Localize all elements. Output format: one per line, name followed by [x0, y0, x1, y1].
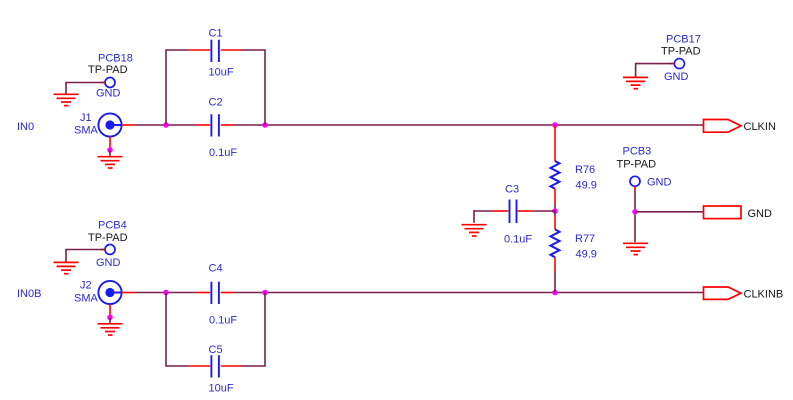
- wire IN0B main row: [135, 292, 704, 294]
- svg-text:PCB17: PCB17: [666, 33, 701, 45]
- ground below PCB4: [54, 262, 79, 273]
- wire C5 bypass loop: [166, 293, 265, 367]
- ground below PCB3: [623, 243, 648, 254]
- svg-text:GND: GND: [664, 71, 689, 83]
- wire PCB3 vertical: [634, 190, 636, 242]
- capacitor C3: [493, 184, 533, 246]
- svg-text:CLKINB: CLKINB: [744, 289, 784, 301]
- testpoint PCB17 TP-PAD: [661, 33, 701, 83]
- port CLKIN: [704, 120, 776, 134]
- svg-text:GND: GND: [647, 177, 672, 189]
- junction (265,292.5): [262, 290, 268, 296]
- svg-text:GND: GND: [748, 208, 773, 220]
- ground below J2: [98, 324, 123, 335]
- testpoint PCB3 TP-PAD: [617, 146, 672, 189]
- junction (555,292.5): [552, 290, 558, 296]
- svg-text:IN0B: IN0B: [17, 288, 41, 300]
- pin J2 right: [122, 292, 136, 294]
- pin PCB4: [101, 249, 106, 251]
- ground at C3: [462, 225, 487, 236]
- resistor R77: [551, 216, 597, 272]
- junction (555,211): [552, 208, 558, 214]
- svg-text:10uF: 10uF: [209, 383, 234, 395]
- svg-text:C3: C3: [505, 184, 519, 196]
- wire IN0 main row: [135, 124, 704, 126]
- svg-text:CLKIN: CLKIN: [744, 121, 776, 133]
- svg-text:IN0: IN0: [17, 121, 34, 133]
- svg-text:PCB18: PCB18: [98, 53, 133, 65]
- wire PCB4 to ground: [66, 250, 105, 262]
- junction (166,125): [163, 122, 169, 128]
- pin J1 right: [122, 124, 136, 126]
- wire J1 ground stub: [109, 150, 111, 156]
- testpoint PCB18 TP-PAD: [88, 53, 133, 100]
- svg-text:C5: C5: [209, 344, 223, 356]
- svg-text:C1: C1: [209, 28, 223, 40]
- svg-text:TP-PAD: TP-PAD: [617, 158, 657, 170]
- wire node to R77: [554, 211, 556, 216]
- capacitor C4: [196, 263, 237, 327]
- svg-text:C2: C2: [209, 97, 223, 109]
- testpoint PCB4 TP-PAD: [88, 220, 128, 269]
- svg-text:J1: J1: [80, 112, 92, 124]
- svg-text:GND: GND: [96, 88, 121, 100]
- connector J2 SMA: [74, 280, 122, 305]
- svg-text:0.1uF: 0.1uF: [209, 315, 237, 327]
- junction (265,125): [262, 122, 268, 128]
- svg-text:TP-PAD: TP-PAD: [661, 45, 701, 57]
- junction J2 ground: [107, 315, 113, 321]
- connector J1 SMA: [74, 112, 122, 137]
- pin PCB3: [634, 186, 636, 190]
- svg-text:SMA: SMA: [74, 293, 99, 305]
- wire PCB18 to ground: [66, 83, 105, 94]
- wire C3 to node: [474, 210, 555, 223]
- svg-text:R77: R77: [575, 233, 595, 245]
- wire PCB17 to ground: [636, 64, 675, 77]
- wire C1 bypass loop: [166, 50, 265, 125]
- junction J1 ground: [107, 147, 113, 153]
- capacitor C2: [196, 97, 237, 160]
- svg-text:SMA: SMA: [74, 125, 99, 137]
- svg-text:J2: J2: [80, 280, 92, 292]
- wire R76 to node: [554, 204, 556, 211]
- port CLKINB: [704, 287, 784, 301]
- ground below PCB17: [623, 77, 648, 88]
- svg-text:TP-PAD: TP-PAD: [88, 64, 128, 76]
- pin PCB18: [101, 82, 106, 84]
- junction (166,292.5): [163, 290, 169, 296]
- pin PCB17: [670, 63, 674, 65]
- svg-text:0.1uF: 0.1uF: [209, 147, 237, 159]
- svg-text:C4: C4: [209, 263, 223, 275]
- pin J2 ground: [109, 304, 111, 316]
- junction (555,125): [552, 122, 558, 128]
- svg-text:R76: R76: [575, 164, 595, 176]
- capacitor C5: [189, 344, 242, 395]
- svg-text:PCB3: PCB3: [623, 146, 652, 158]
- ground below J1: [98, 157, 123, 168]
- svg-text:49.9: 49.9: [576, 249, 597, 261]
- svg-text:0.1uF: 0.1uF: [504, 234, 532, 246]
- svg-text:10uF: 10uF: [209, 67, 234, 79]
- capacitor C1: [189, 28, 242, 79]
- svg-text:PCB4: PCB4: [98, 220, 127, 232]
- svg-text:TP-PAD: TP-PAD: [88, 232, 128, 244]
- port GND: [704, 206, 773, 220]
- pin J1 ground: [109, 137, 111, 149]
- ground below PCB18: [54, 94, 79, 105]
- junction (635,211.8): [632, 209, 638, 215]
- svg-text:49.9: 49.9: [576, 180, 597, 192]
- resistor R76: [551, 125, 597, 204]
- wire PCB3 to GND connector: [635, 211, 704, 213]
- svg-text:GND: GND: [96, 257, 121, 269]
- wire J2 ground stub: [109, 317, 111, 323]
- wire R77 to IN0B row: [554, 272, 556, 293]
